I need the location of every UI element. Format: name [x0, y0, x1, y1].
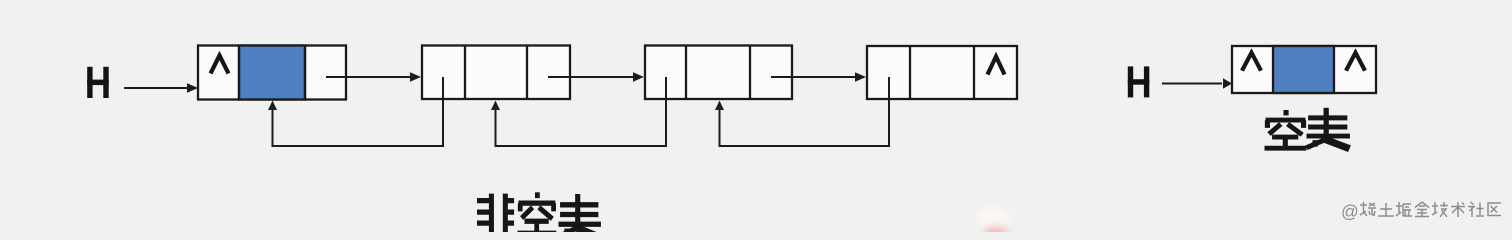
- wm char 土: [1378, 203, 1394, 216]
- node 4 box (last; next=null): [867, 46, 1017, 99]
- char 空: [1265, 110, 1307, 148]
- node 4 null next symbol: [988, 57, 1005, 75]
- pink pointer dot: [975, 221, 1017, 240]
- empty node data cell (blue): [1273, 46, 1334, 93]
- char 非: [477, 194, 514, 235]
- label H (head pointer, empty list): [1128, 66, 1150, 97]
- node 3 box: [645, 46, 792, 100]
- empty-list node box: [1232, 46, 1376, 93]
- node 2 box: [422, 46, 570, 100]
- arrow H to node 1: [124, 83, 198, 93]
- node 1 null prior symbol: [211, 56, 229, 74]
- svg-text:@: @: [1341, 202, 1359, 222]
- wire node1.next to node2: [326, 72, 421, 82]
- wire node4.prior to node3 (loop under): [715, 77, 889, 146]
- wm char 社: [1468, 202, 1484, 217]
- wm char 技: [1432, 202, 1448, 217]
- caption 空表 (empty list): [1265, 108, 1350, 149]
- wm char 金: [1415, 202, 1429, 217]
- wm char 掘: [1396, 202, 1412, 216]
- empty node null next symbol: [1346, 53, 1365, 71]
- char 表: [1307, 108, 1350, 149]
- empty node null prior symbol: [1242, 53, 1261, 71]
- wm char 术: [1451, 202, 1465, 217]
- label H (head pointer, non-empty list): [87, 67, 109, 98]
- caption 非空表 (non-empty list): [477, 192, 601, 237]
- node 1 box (prior=null, data, next): [198, 46, 346, 100]
- wire node3.prior to node2 (loop under): [491, 77, 666, 146]
- arrow H to empty node: [1162, 78, 1232, 88]
- wm char 稀: [1360, 202, 1376, 216]
- node 1 data cell (blue): [239, 46, 305, 100]
- pink pointer dot glow: [971, 204, 1015, 230]
- wm char 区: [1488, 203, 1501, 216]
- wire node2.prior to node1 (loop under): [268, 77, 443, 146]
- wire node3.next to node4: [771, 72, 866, 82]
- watermark @稀土掘金技术社区: [1341, 202, 1501, 222]
- char 空: [518, 192, 557, 233]
- wire node2.next to node3: [548, 72, 644, 82]
- char 表: [559, 194, 601, 238]
